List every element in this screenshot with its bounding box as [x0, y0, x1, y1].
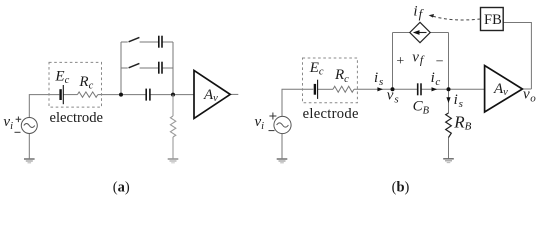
svg-text:Rc: Rc — [334, 67, 349, 85]
svg-text:is: is — [454, 92, 463, 110]
svg-text:electrode: electrode — [303, 106, 359, 122]
svg-text:vf: vf — [412, 50, 425, 67]
svg-text:Ec: Ec — [309, 60, 324, 78]
svg-text:+: + — [396, 54, 404, 69]
svg-text:Av: Av — [203, 87, 218, 104]
svg-text:electrode: electrode — [50, 110, 103, 126]
svg-text:(a): (a) — [113, 180, 130, 196]
svg-text:FB: FB — [484, 12, 502, 28]
svg-text:vo: vo — [523, 87, 536, 105]
svg-text:Rc: Rc — [78, 74, 93, 92]
svg-text:if: if — [413, 4, 424, 21]
svg-text:CB: CB — [413, 99, 430, 117]
svg-text:RB: RB — [453, 113, 471, 133]
svg-text:Ec: Ec — [54, 69, 69, 87]
svg-text:−: − — [436, 54, 444, 69]
svg-text:ic: ic — [431, 70, 441, 88]
svg-text:vs: vs — [387, 87, 399, 105]
svg-text:vi: vi — [3, 114, 13, 132]
svg-text:is: is — [374, 70, 383, 88]
svg-text:(b): (b) — [392, 180, 410, 196]
svg-text:Av: Av — [493, 81, 508, 98]
svg-text:vi: vi — [255, 114, 265, 132]
